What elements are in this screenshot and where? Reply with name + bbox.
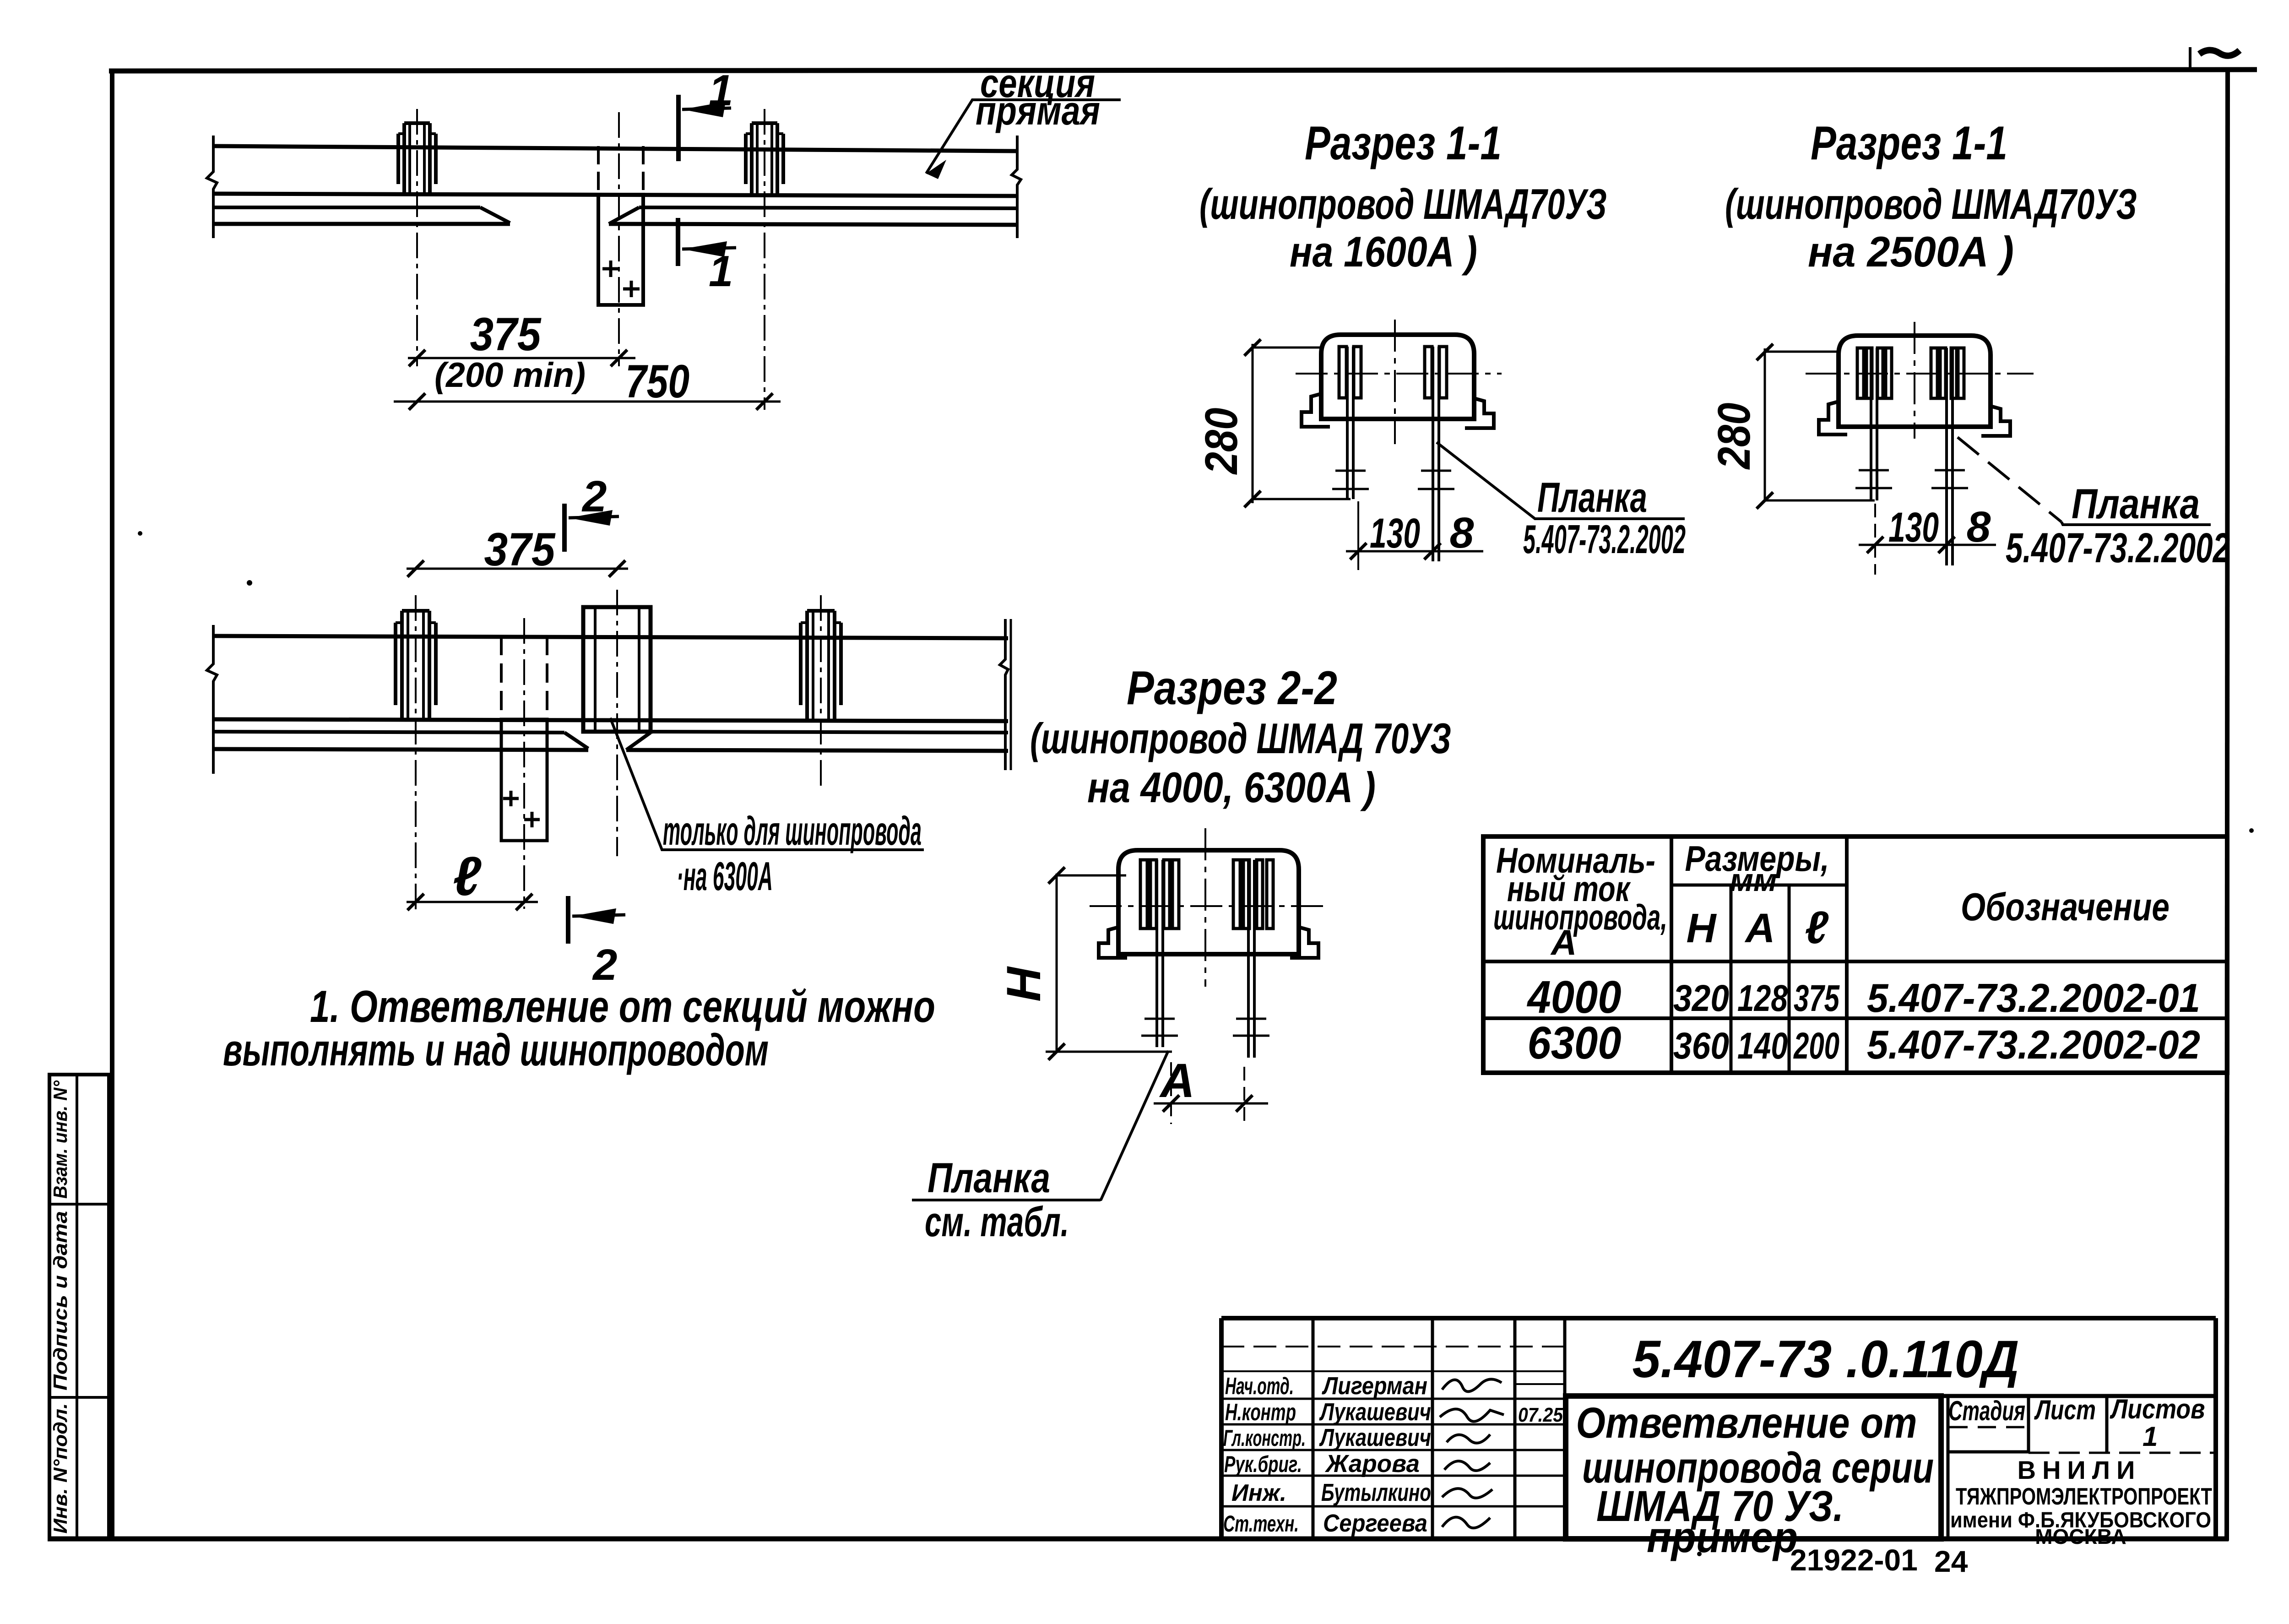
busbar2 left break mark [207, 625, 217, 774]
sheet count 1 [2143, 1421, 2158, 1452]
left foot (1600A) [1302, 394, 1330, 427]
dimension text 375 (plan 2) [484, 523, 556, 576]
label Планка (см.табл.) [928, 1155, 1050, 1201]
busbar right break mark [1012, 136, 1021, 238]
table header Номинальный ток шинопровода, А [1493, 840, 1667, 962]
dashed tap box 6300A (plan view 2) [501, 636, 547, 841]
svg-text:Н: Н [997, 966, 1051, 1002]
leader Планка см.табл. [912, 1051, 1168, 1200]
frame top border [109, 70, 2257, 71]
table header A [1745, 906, 1775, 951]
label см.табл. [925, 1199, 1069, 1245]
housing (2500A section) [1839, 336, 1991, 427]
leader секция прямая [926, 100, 1121, 179]
svg-text:750: 750 [625, 355, 689, 407]
label Лист [2034, 1395, 2096, 1425]
svg-text:375: 375 [470, 308, 542, 360]
svg-text:(шинопровод ШМАД 70УЗ: (шинопровод ШМАД 70УЗ [1030, 714, 1451, 762]
doc number cell underline [1565, 1394, 2216, 1398]
svg-text:07.25: 07.25 [1518, 1404, 1563, 1426]
busbar2 right break mark [1000, 619, 1011, 770]
dimension text l [453, 846, 482, 907]
title block outer frame [1221, 1318, 2216, 1539]
svg-text:2: 2 [581, 472, 607, 521]
tap-off box (plan view 1) [598, 146, 643, 305]
table row 4000 [1527, 972, 2200, 1023]
svg-text:5.407-73.2.2002: 5.407-73.2.2002 [1523, 516, 1686, 562]
svg-text:Планка: Планка [928, 1155, 1050, 1201]
svg-text:8: 8 [1450, 509, 1474, 557]
label 5.407-73.2.2002 (2500A) [2006, 525, 2230, 571]
top-right tilde mark [2199, 50, 2240, 55]
hanger A centerline [416, 109, 418, 366]
leader Планка (2500A, dashed) [1958, 437, 2211, 525]
dimension H (2-2) [1046, 867, 1172, 1060]
tap-off box centerline [618, 112, 620, 366]
svg-text:шинопровода,: шинопровода, [1493, 897, 1667, 937]
label Планка (1600A) [1537, 474, 1647, 521]
label секция [980, 60, 1095, 106]
svg-text:21922-01: 21922-01 [1790, 1543, 1918, 1577]
title block staff row lines [1221, 1347, 1565, 1506]
dimension l (plan 2) [407, 894, 538, 910]
stamp strip label Взам. инв. № [49, 1080, 71, 1199]
long rod right (2-2) [1248, 860, 1254, 1058]
hanger clamp A (plan view 1) [398, 123, 436, 195]
svg-text:128: 128 [1737, 978, 1788, 1019]
svg-text:4000: 4000 [1527, 972, 1622, 1023]
svg-text:Гл.констр.: Гл.констр. [1223, 1425, 1306, 1451]
rod slots left (1600A) [1339, 347, 1361, 398]
rod tick marks (1600A) [1332, 471, 1454, 489]
rod tick marks (2500A) [1855, 470, 1968, 488]
svg-text:1: 1 [2143, 1421, 2158, 1452]
svg-text:1: 1 [709, 66, 733, 115]
busbar2 top line [212, 636, 1008, 638]
section label 2 bottom [592, 940, 617, 989]
svg-text:ℓ: ℓ [453, 846, 482, 907]
svg-text:Планка: Планка [2072, 481, 2200, 527]
svg-text:Жарова: Жарова [1324, 1450, 1420, 1477]
leader только для шинопровода [610, 718, 924, 850]
svg-text:Планка: Планка [1537, 474, 1647, 521]
housing (section 2-2) [1118, 850, 1299, 954]
title Разрез 1-1 (2500А) [1725, 117, 2137, 276]
rod slots right (2500A) [1931, 348, 1964, 398]
svg-text:пример: пример [1647, 1513, 1798, 1562]
section mark 2 bottom [568, 896, 625, 944]
svg-text:Лукашевич: Лукашевич [1319, 1424, 1431, 1451]
label 5.407-73.2.2002 (1600A) [1523, 516, 1686, 562]
label Планка (2500A) [2072, 481, 2200, 527]
dimension 130 and 8 (1600A) [1346, 501, 1483, 570]
dimension 130 and 8 (2500A) [1859, 504, 1996, 575]
dimension text 375 (plan 1) [470, 308, 542, 360]
left foot (2500A) [1819, 402, 1847, 435]
svg-text:Нач.отд.: Нач.отд. [1225, 1373, 1294, 1400]
table header H [1687, 906, 1717, 951]
frame bottom border [48, 1537, 2229, 1542]
svg-text:Обозначение: Обозначение [1961, 885, 2170, 929]
long rod left (2-2) [1157, 860, 1163, 1047]
plus mark 1 in box (plan 2) [503, 791, 519, 806]
doc number 5.407-73.0.110Д [1633, 1330, 2019, 1389]
dashed tap box centerline [523, 618, 525, 909]
svg-text:Листов: Листов [2110, 1394, 2205, 1424]
section mark 2 top [564, 504, 619, 552]
svg-text:ТЯЖПРОМЭЛЕКТРОПРОЕКТ: ТЯЖПРОМЭЛЕКТРОПРОЕКТ [1956, 1483, 2212, 1510]
title Разрез 2-2 [1030, 662, 1451, 811]
svg-text:Лист: Лист [2034, 1395, 2096, 1425]
svg-text:360: 360 [1673, 1025, 1729, 1067]
svg-text:320: 320 [1673, 978, 1729, 1019]
support rail left segment [213, 207, 510, 224]
table row 6300 [1528, 1017, 2201, 1069]
busbar left break mark [207, 136, 217, 238]
dimension text 130 (2500A) [1888, 504, 1939, 551]
svg-text:ВНИЛИ: ВНИЛИ [2018, 1456, 2142, 1484]
staff labels column [1223, 1373, 1306, 1537]
hanger C centerline [415, 595, 417, 911]
busbar2 bottom line [212, 719, 1008, 721]
dimension 750 (plan 1) [394, 393, 781, 410]
svg-text:Н.контр: Н.контр [1225, 1399, 1296, 1426]
section mark 1 top [678, 95, 731, 161]
right foot (2-2) [1290, 927, 1318, 958]
busbar top line [212, 146, 1017, 151]
dimension text 8 (1600A) [1450, 509, 1474, 557]
left stamp strip outline [49, 1075, 109, 1539]
svg-text:Взам. инв. N°: Взам. инв. N° [49, 1080, 71, 1199]
svg-text:(шинопровод ШМАД70УЗ: (шинопровод ШМАД70УЗ [1199, 180, 1607, 228]
label на 6300А [677, 853, 773, 899]
dimension text A [1159, 1054, 1195, 1108]
dimension 280 (1600A) [1244, 339, 1351, 507]
hanger B centerline [764, 109, 765, 410]
scan speck 1 [247, 580, 252, 586]
svg-text:на 2500А ): на 2500А ) [1808, 228, 2014, 276]
svg-text:130: 130 [1370, 510, 1420, 557]
svg-text:см. табл.: см. табл. [925, 1199, 1069, 1245]
svg-text:280: 280 [1196, 408, 1247, 475]
svg-text:(шинопровод ШМАД70УЗ: (шинопровод ШМАД70УЗ [1725, 180, 2137, 228]
svg-text:Инж.: Инж. [1231, 1480, 1286, 1506]
svg-text:1. Ответвление от секций можн: 1. Ответвление от секций можно [310, 981, 935, 1032]
svg-text:только для шинопровода: только для шинопровода [663, 808, 922, 853]
staff signatures [1440, 1379, 1504, 1528]
busbar bottom line [212, 194, 1017, 196]
section label 1 top [709, 66, 733, 115]
housing (1600A section) [1321, 335, 1474, 419]
rod slots right (1600A) [1425, 347, 1447, 398]
dimension 375 (plan 2) [407, 560, 628, 577]
frame right border [2227, 70, 2228, 1541]
label Стадия [1948, 1396, 2025, 1426]
title block column lines [1313, 1318, 1565, 1539]
top-right revision tick [2189, 47, 2191, 68]
drawing name text [1576, 1399, 1934, 1562]
plus mark 2 in tap box [623, 281, 640, 297]
svg-text:выполнять и над шинопроводом: выполнять и над шинопроводом [223, 1025, 769, 1075]
label только для шинопровода [663, 808, 922, 853]
svg-text:Бутылкино: Бутылкино [1321, 1479, 1431, 1506]
svg-text:140: 140 [1737, 1025, 1788, 1067]
frame left border [110, 69, 114, 1541]
label Листов [2110, 1394, 2205, 1424]
drawing name cell box [1566, 1396, 1941, 1539]
svg-text:Инв. N°подл.: Инв. N°подл. [49, 1403, 71, 1534]
long rod right (1600A) [1433, 347, 1439, 561]
svg-text:на 1600А ): на 1600А ) [1290, 228, 1477, 276]
table header l [1805, 902, 1829, 953]
support rail right segment [609, 207, 1017, 225]
scan speck 4 [138, 531, 142, 536]
dimension text 280 (1600A) [1196, 408, 1247, 475]
left foot (2-2) [1099, 927, 1127, 958]
plus mark 1 in tap box [602, 261, 619, 277]
rod slots left (2500A) [1857, 348, 1892, 398]
table header Размеры, мм [1685, 838, 1829, 898]
hanger clamp C (plan view 2) [396, 611, 436, 719]
svg-text:8: 8 [1967, 503, 1991, 551]
staff names column [1319, 1372, 1431, 1537]
hanger D centerline [820, 595, 822, 788]
section label 2 top [581, 472, 607, 521]
stamp strip label Подпись и дата [49, 1211, 71, 1390]
svg-text:Разрез 1-1: Разрез 1-1 [1305, 117, 1502, 170]
svg-text:Ст.техн.: Ст.техн. [1223, 1511, 1299, 1537]
section mark 1 bottom [678, 218, 736, 266]
long rod right (2500A) [1947, 348, 1953, 565]
table header Обозначение [1961, 885, 2170, 929]
vertical centerline (1600A) [1394, 320, 1396, 444]
rod tick marks (2-2) [1141, 1019, 1269, 1036]
scan speck 3 [1697, 1552, 1702, 1556]
svg-text:Стадия: Стадия [1948, 1396, 2025, 1426]
svg-text:24: 24 [1934, 1544, 1968, 1578]
hanger clamp D (plan view 2) [801, 611, 841, 719]
svg-text:5.407-73.2.2002: 5.407-73.2.2002 [2006, 525, 2230, 571]
vertical centerline (2-2) [1204, 828, 1206, 987]
rod slots left (2-2) [1140, 860, 1179, 929]
hanger clamp B (plan view 1) [746, 123, 783, 195]
svg-text:Разрез 2-2: Разрез 2-2 [1127, 662, 1337, 715]
leader Планка (1600A) [1437, 442, 1685, 519]
svg-text:МОСКВА: МОСКВА [2035, 1525, 2126, 1548]
svg-text:1: 1 [709, 247, 733, 296]
plus mark 2 in box (plan 2) [524, 812, 540, 827]
long rod left (1600A) [1347, 347, 1353, 499]
table grid [1483, 836, 2227, 1073]
svg-text:375: 375 [1794, 978, 1840, 1019]
organization name [1950, 1456, 2212, 1548]
long rod left (2500A) [1871, 348, 1877, 500]
svg-text:280: 280 [1709, 403, 1760, 470]
svg-text:прямая: прямая [976, 88, 1100, 133]
right foot (1600A) [1465, 398, 1494, 428]
svg-text:Лигерман: Лигерман [1322, 1372, 1427, 1400]
dimension text H [997, 966, 1051, 1002]
svg-text:Ответвление от: Ответвление от [1576, 1399, 1917, 1447]
vertical centerline (2500A) [1914, 322, 1915, 439]
svg-text:А: А [1745, 906, 1775, 951]
svg-text:Сергеева: Сергеева [1323, 1510, 1427, 1537]
wide tap box centerline [616, 590, 618, 856]
dimension text 130 (1600A) [1370, 510, 1420, 557]
svg-text:А: А [1550, 922, 1577, 962]
стадия лист листов grid [1948, 1396, 2216, 1539]
svg-text:5.407-73.2.2002-02: 5.407-73.2.2002-02 [1867, 1022, 2200, 1067]
svg-text:6300: 6300 [1528, 1017, 1622, 1069]
dimension text 750 [625, 355, 689, 407]
label прямая [976, 88, 1100, 133]
dimension 280 (2500A) [1757, 344, 1875, 509]
svg-text:200: 200 [1793, 1025, 1839, 1067]
right foot (2500A) [1981, 406, 2010, 436]
svg-text:ℓ: ℓ [1805, 902, 1829, 953]
dimension text 8 (2500A) [1967, 503, 1991, 551]
stamp strip label Инв. № подл. [49, 1403, 71, 1534]
note line 1 [310, 981, 935, 1032]
svg-text:мм: мм [1730, 862, 1777, 898]
dimension text (200 min) [434, 356, 586, 395]
scan speck 2 [2249, 828, 2254, 833]
section label 1 bottom [709, 247, 733, 296]
svg-text:375: 375 [484, 523, 556, 576]
svg-text:на 4000, 6300А ): на 4000, 6300А ) [1087, 763, 1376, 811]
svg-text:·на 6300А: ·на 6300А [677, 853, 773, 899]
svg-text:Рук.бриг.: Рук.бриг. [1224, 1451, 1302, 1477]
svg-text:Подпись и дата: Подпись и дата [49, 1211, 71, 1390]
svg-text:5.407-73 .0.110Д: 5.407-73 .0.110Д [1633, 1330, 2019, 1389]
svg-text:130: 130 [1888, 504, 1939, 551]
dimension A (2-2) [1154, 1062, 1268, 1124]
date 07.25 [1518, 1404, 1563, 1426]
rod slots right (2-2) [1233, 860, 1273, 929]
support rail2 left segment [213, 732, 588, 750]
dimension text 280 (2500A) [1709, 403, 1760, 470]
svg-text:(200 min): (200 min) [434, 356, 586, 395]
svg-text:Разрез 1-1: Разрез 1-1 [1811, 117, 2007, 170]
dimension 375 (plan 1) [408, 350, 635, 366]
svg-text:5.407-73.2.2002-01: 5.407-73.2.2002-01 [1867, 975, 2200, 1021]
title Разрез 1-1 (1600А) [1199, 117, 1607, 276]
note line 2 [223, 1025, 769, 1075]
horizontal centerline (1600A) [1296, 373, 1502, 375]
horizontal centerline (2-2) [1090, 905, 1323, 907]
wide tap box (plan view 2) [583, 607, 651, 732]
support rail2 right segment [626, 732, 1008, 751]
svg-text:Н: Н [1687, 906, 1717, 951]
svg-text:Лукашевич: Лукашевич [1319, 1398, 1431, 1426]
horizontal centerline (2500A) [1806, 373, 2034, 375]
bottom stamp number 21922-01 24 [1790, 1543, 1968, 1578]
